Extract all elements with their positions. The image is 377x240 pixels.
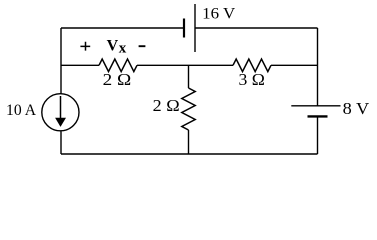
label minus Vx <box>139 45 146 47</box>
wire top rail right <box>195 27 318 29</box>
resistor R1 2ohm horizontal zigzag <box>99 59 137 72</box>
wire middle vertical upper <box>188 65 190 88</box>
resistor R3 3ohm zigzag <box>233 59 271 72</box>
battery V2 8V short plate <box>308 115 328 117</box>
wire right vertical lower <box>317 116 319 154</box>
resistor R2 2ohm vertical zigzag <box>182 88 195 130</box>
wire right vertical upper <box>317 28 319 106</box>
svg-text:2 Ω: 2 Ω <box>103 70 132 89</box>
battery V1 16V tall plate <box>194 4 196 52</box>
current source I1 arrow <box>55 96 66 127</box>
wire left vertical upper <box>60 28 62 94</box>
svg-text:16 V: 16 V <box>202 6 235 23</box>
wire second rail left <box>61 64 99 66</box>
svg-text:2 Ω: 2 Ω <box>153 96 180 115</box>
wire second rail right <box>271 64 318 66</box>
label Vx <box>107 38 127 57</box>
svg-text:x: x <box>119 40 127 56</box>
svg-text:10 A: 10 A <box>6 102 36 119</box>
label plus Vx <box>80 42 90 51</box>
wire bottom rail <box>61 153 318 155</box>
current source I1 circle <box>42 94 79 131</box>
wire left vertical lower <box>60 131 62 154</box>
wire top rail left <box>61 27 184 29</box>
wire second rail middle <box>137 64 233 66</box>
wire middle vertical lower <box>188 130 190 154</box>
svg-text:V: V <box>107 38 119 55</box>
battery V2 8V long plate <box>291 105 340 107</box>
battery V1 16V short plate <box>183 19 185 38</box>
svg-text:3 Ω: 3 Ω <box>239 70 265 89</box>
svg-text:8 V: 8 V <box>343 99 370 118</box>
